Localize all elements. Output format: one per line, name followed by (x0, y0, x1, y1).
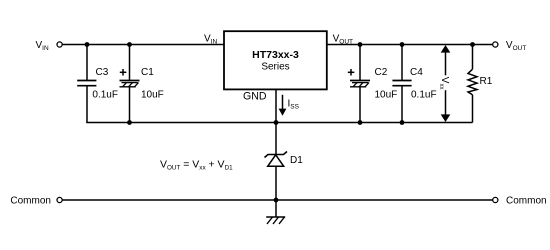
svg-text:0.1uF: 0.1uF (92, 90, 118, 101)
wire common rail (62, 199, 492, 201)
terminal Common left (57, 197, 62, 202)
measure arrow Vxx (438, 45, 450, 122)
svg-text:C1: C1 (141, 67, 154, 78)
svg-text:C2: C2 (375, 67, 388, 78)
svg-text:HT73xx-3: HT73xx-3 (252, 49, 299, 61)
svg-text:D1: D1 (290, 155, 303, 166)
svg-text:Common: Common (10, 196, 51, 207)
svg-text:Series: Series (261, 62, 289, 73)
ground (266, 200, 285, 224)
regulator U1 HT73xx-3 box (224, 31, 327, 89)
resistor R1 (468, 45, 493, 123)
terminal VOUT (493, 42, 498, 47)
wire VIN terminal to regulator (62, 44, 224, 46)
svg-text:C3: C3 (96, 67, 109, 78)
zener diode D1 (265, 152, 304, 201)
junction C2 top (358, 42, 363, 47)
svg-text:Common: Common (506, 196, 547, 207)
svg-text:0.1uF: 0.1uF (411, 90, 437, 101)
terminal Common right (493, 197, 498, 202)
junction C1 top (127, 42, 132, 47)
capacitor C4 (392, 45, 436, 123)
svg-text:C4: C4 (410, 67, 423, 78)
junction GND rail (274, 120, 279, 125)
terminal VIN (57, 42, 62, 47)
svg-text:10uF: 10uF (375, 90, 398, 101)
junction C2 bottom (358, 120, 363, 125)
capacitor C2 (polarized) (348, 45, 397, 123)
wire regulator to VOUT terminal (327, 44, 493, 46)
junction C4 bottom (400, 120, 405, 125)
junction C4 top (400, 42, 405, 47)
junction D1 common (274, 198, 279, 203)
svg-text:10uF: 10uF (141, 90, 164, 101)
svg-text:GND: GND (243, 90, 267, 102)
junction R1 top (470, 42, 475, 47)
capacitor C3 (77, 45, 118, 123)
current arrow ISS (279, 95, 300, 116)
wire bottom rail (86, 122, 472, 124)
junction C3 top (85, 42, 90, 47)
capacitor C1 (polarized) (120, 45, 164, 123)
junction C1 bottom (127, 120, 132, 125)
wire GND pin down from regulator (275, 89, 277, 155)
svg-text:R1: R1 (480, 76, 493, 87)
